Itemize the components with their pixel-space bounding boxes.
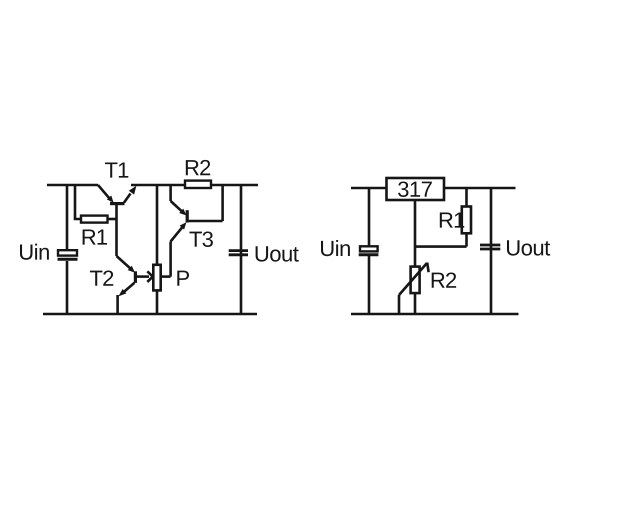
- wire ADJ to R1 bottom: [415, 245, 467, 248]
- wire Uin capacitor leg top (left circuit): [66, 185, 69, 250]
- node Uin label (right circuit): [321, 240, 350, 256]
- wire P right side link at wiper level: [161, 275, 171, 278]
- transistor T2: [117, 256, 136, 296]
- wire bottom rail (right circuit): [351, 313, 519, 316]
- resistor R2 (left circuit, in rail): [185, 181, 211, 188]
- label P: [177, 271, 189, 286]
- capacitor Uin electrolytic (right circuit): [359, 246, 379, 255]
- label T3: [189, 231, 212, 247]
- wire bottom rail (left circuit): [43, 313, 257, 316]
- transistor T1: [98, 185, 136, 204]
- label T1: [105, 162, 128, 177]
- wire Uout leg (left circuit): [240, 185, 243, 314]
- wire Uout leg (right circuit): [490, 188, 493, 314]
- wire T3 collector down leg: [169, 242, 172, 277]
- regulator U1 317 box: [387, 178, 445, 200]
- wire Uin leg bottom (right circuit): [368, 256, 371, 314]
- wire top rail right segment (left circuit): [211, 184, 258, 187]
- wire R1 to T1 base: [108, 218, 117, 221]
- wire top rail right segment (right circuit): [444, 187, 516, 190]
- wire T2 emitter to bottom rail: [116, 295, 119, 314]
- wire ADJ pin down from 317: [414, 200, 417, 267]
- capacitor Uin electrolytic (left circuit): [58, 250, 78, 259]
- capacitor Uout (left circuit): [229, 251, 248, 255]
- label R1 (left): [83, 229, 107, 244]
- wire R1 bottom lead (right circuit): [465, 233, 468, 246]
- resistor R1 (right circuit): [462, 207, 471, 234]
- label R1 (right): [440, 212, 464, 227]
- wire Uin leg top (right circuit): [368, 188, 371, 246]
- trimmer resistor R2 (right circuit): [399, 263, 429, 314]
- wire T3 emitter up to rail: [169, 185, 172, 201]
- wire T1 base down to T2: [115, 204, 118, 256]
- wire Uin capacitor leg bottom (left circuit): [66, 261, 69, 314]
- capacitor Uout (right circuit): [480, 245, 500, 249]
- wire R1 top lead (right circuit): [465, 188, 468, 207]
- node Uout label (left circuit): [256, 246, 299, 261]
- resistor R1 (left circuit): [81, 216, 108, 223]
- wire T3 base up to rail: [221, 186, 224, 221]
- node Uin label (left circuit): [20, 244, 49, 260]
- label R2 (right): [432, 272, 456, 287]
- label R2 (left): [186, 160, 210, 175]
- potentiometer P: [137, 185, 161, 314]
- wire top rail left segment (left circuit): [47, 184, 98, 187]
- wire top rail left segment (right circuit): [351, 187, 387, 190]
- transistor T3: [171, 201, 223, 242]
- value label 317: [398, 181, 432, 197]
- wire R1 branch from rail: [75, 185, 81, 219]
- wire top rail middle segment (left circuit): [131, 184, 185, 187]
- node Uout label (right circuit): [507, 240, 550, 255]
- label T2: [90, 270, 113, 285]
